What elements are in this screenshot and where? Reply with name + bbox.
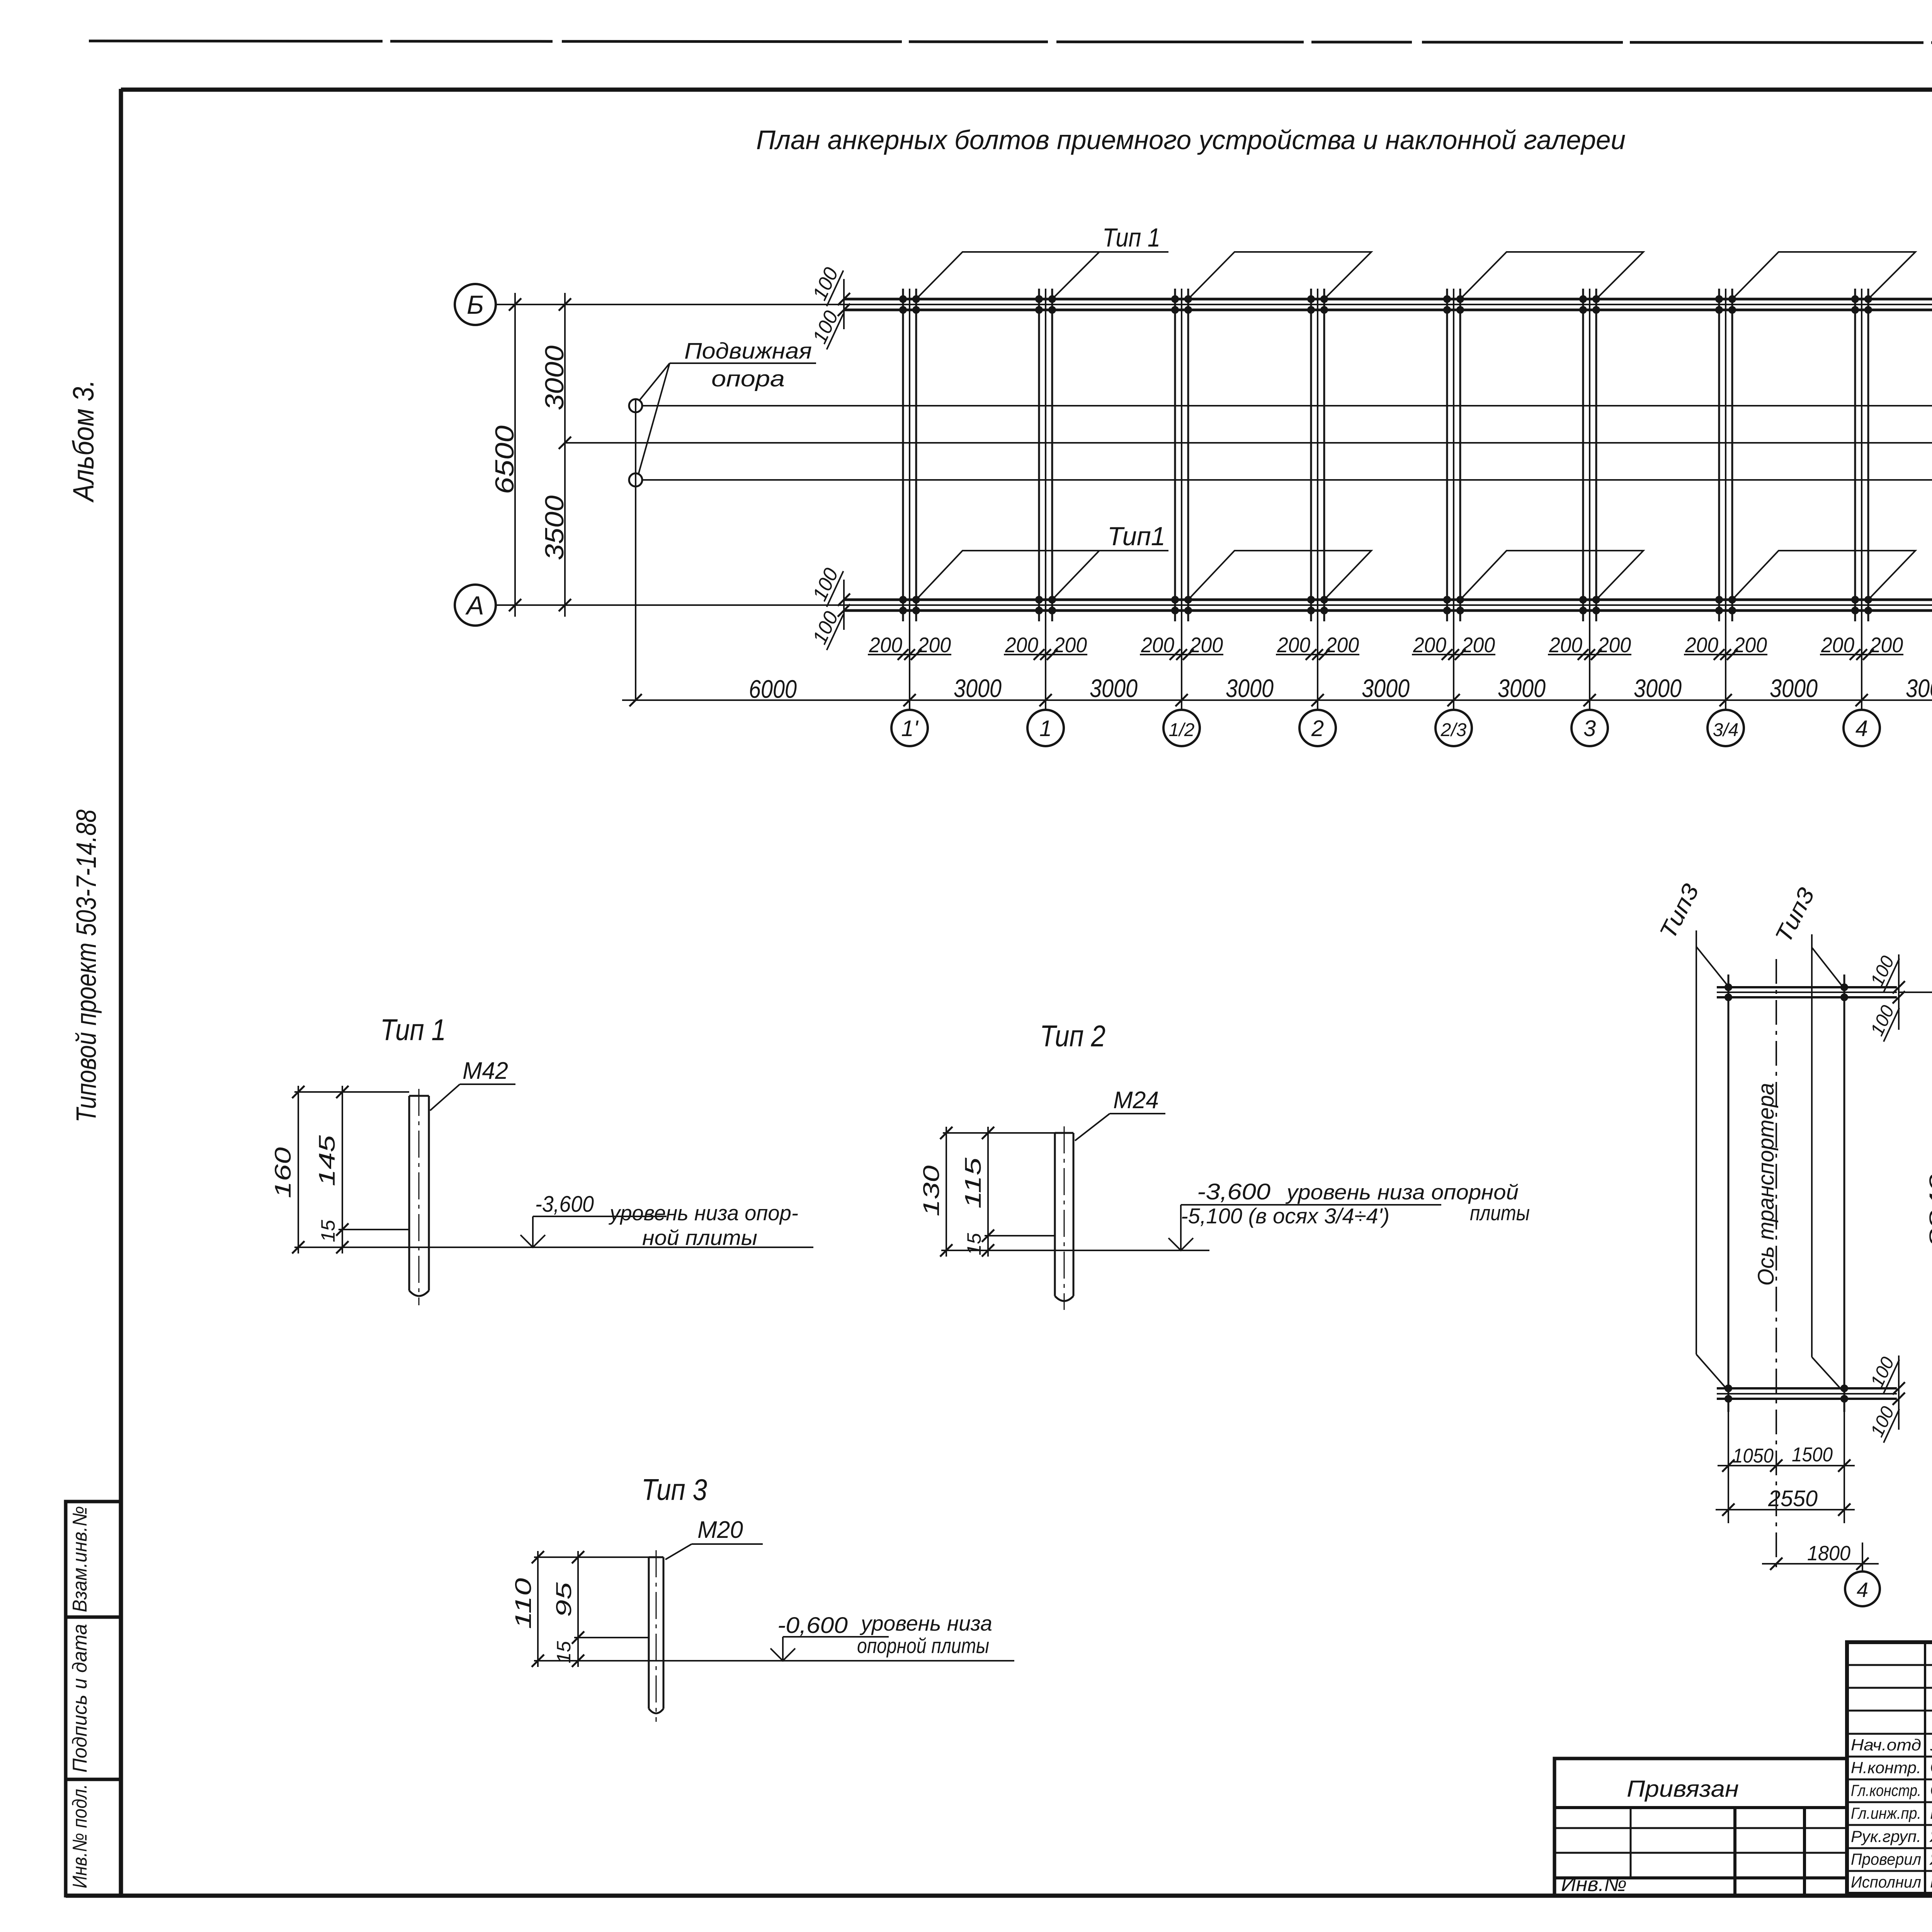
column axis 1/2 bbox=[1171, 289, 1192, 710]
axis bubble 1/2 bbox=[1163, 710, 1200, 746]
movable support left circles bbox=[629, 399, 642, 700]
strip A 100/100 dimension bbox=[807, 562, 850, 650]
title block frame bbox=[1847, 1642, 1932, 1894]
svg-text:200: 200 bbox=[1821, 633, 1854, 657]
svg-text:200: 200 bbox=[1685, 633, 1718, 657]
svg-text:Б: Б bbox=[467, 290, 484, 320]
svg-text:Орлик: Орлик bbox=[1930, 1757, 1932, 1777]
margin box Взам.инв.№ bbox=[66, 1502, 121, 1617]
svg-text:200: 200 bbox=[1733, 633, 1767, 657]
axis bubble 1 bbox=[1027, 710, 1064, 746]
svg-text:уровень низа опорной: уровень низа опорной bbox=[1285, 1180, 1519, 1204]
svg-text:2: 2 bbox=[1311, 716, 1324, 741]
svg-text:200: 200 bbox=[1869, 633, 1903, 657]
svg-text:1/2: 1/2 bbox=[1169, 720, 1195, 740]
svg-text:Павлова: Павлова bbox=[1930, 1871, 1932, 1891]
svg-text:4: 4 bbox=[1855, 716, 1868, 741]
svg-text:200: 200 bbox=[1461, 633, 1495, 657]
tip3 ground line bbox=[534, 1660, 1014, 1662]
tip2 elevation mark bbox=[1168, 1205, 1441, 1250]
dimension 6500 bbox=[490, 293, 521, 617]
svg-text:3000: 3000 bbox=[1906, 674, 1932, 702]
svg-text:3000: 3000 bbox=[1634, 674, 1682, 702]
svg-text:Тип 3: Тип 3 bbox=[641, 1473, 707, 1507]
margin box Подпись и дата bbox=[66, 1617, 121, 1779]
axis bubble 4 (transporter) bbox=[1845, 1571, 1880, 1606]
column axis 2/3 bbox=[1443, 289, 1464, 710]
svg-text:Рук.груп.: Рук.груп. bbox=[1851, 1827, 1921, 1845]
svg-text:-5,100 (в осях 3/4÷4'): -5,100 (в осях 3/4÷4') bbox=[1181, 1204, 1389, 1228]
svg-text:200: 200 bbox=[1597, 633, 1631, 657]
svg-text:Мурашов: Мурашов bbox=[1930, 1803, 1932, 1823]
leader bottom (cols 3/4-4) bbox=[1732, 551, 1915, 600]
axis bubble 2 bbox=[1299, 710, 1336, 746]
tip2 dimension 115/15 bbox=[961, 1127, 1055, 1257]
axis bubble 2/3 bbox=[1435, 710, 1472, 746]
svg-text:Исполнил: Исполнил bbox=[1851, 1873, 1921, 1891]
svg-text:М20: М20 bbox=[697, 1517, 743, 1543]
tip1 anchor bolt M42 bbox=[409, 1089, 429, 1305]
leader bottom (cols 2/3-3) bbox=[1460, 551, 1643, 600]
svg-text:15: 15 bbox=[317, 1220, 339, 1242]
column axis 1' bbox=[899, 289, 920, 710]
support line lower bbox=[642, 479, 1932, 481]
svg-text:Тип 1: Тип 1 bbox=[380, 1013, 446, 1047]
strip B 100/100 dimension bbox=[807, 261, 850, 350]
column 3/4 200/200 dimension bbox=[1684, 633, 1767, 660]
tip3 elevation mark bbox=[770, 1637, 889, 1661]
svg-text:200: 200 bbox=[1005, 633, 1038, 657]
svg-text:160: 160 bbox=[270, 1147, 296, 1198]
transporter 100/100 bottom bbox=[1866, 1351, 1905, 1443]
foundation strip axis A bbox=[844, 600, 1932, 611]
column 1/2 200/200 dimension bbox=[1140, 633, 1223, 660]
svg-text:95: 95 bbox=[551, 1582, 576, 1617]
svg-text:Гл.констр.: Гл.констр. bbox=[1851, 1781, 1921, 1799]
svg-text:опора: опора bbox=[711, 366, 785, 391]
svg-text:3000: 3000 bbox=[540, 345, 569, 410]
svg-text:Подвижная: Подвижная bbox=[684, 338, 812, 364]
svg-text:М42: М42 bbox=[463, 1058, 508, 1084]
svg-text:Ось транспортера: Ось транспортера bbox=[1753, 1083, 1779, 1286]
svg-text:Взам.инв.№: Взам.инв.№ bbox=[69, 1506, 91, 1612]
svg-text:200: 200 bbox=[1189, 633, 1223, 657]
svg-text:уровень низа опор-: уровень низа опор- bbox=[608, 1201, 798, 1225]
svg-text:уровень низа: уровень низа bbox=[859, 1611, 992, 1635]
leader top (cols 1/2-2) bbox=[1188, 252, 1371, 299]
svg-text:-3,600: -3,600 bbox=[1197, 1179, 1270, 1204]
privyazan grid bbox=[1554, 1808, 1847, 1896]
label M20 bbox=[665, 1517, 763, 1560]
axis A line bbox=[496, 604, 844, 606]
svg-text:Нач.отд: Нач.отд bbox=[1851, 1736, 1921, 1754]
column axis 3 bbox=[1579, 289, 1600, 710]
svg-text:200: 200 bbox=[1053, 633, 1087, 657]
column axis 2 bbox=[1307, 289, 1328, 710]
foundation strip axis B bbox=[844, 299, 1932, 310]
title block row lines bbox=[1847, 1665, 1932, 1871]
tip1 level texts bbox=[535, 1192, 798, 1250]
svg-text:-0,600: -0,600 bbox=[777, 1613, 848, 1638]
dimension 1050/1500 bbox=[1718, 1444, 1855, 1472]
svg-text:Проверил: Проверил bbox=[1851, 1850, 1921, 1868]
column axis 4 bbox=[1851, 289, 1872, 710]
svg-text:1: 1 bbox=[1039, 716, 1052, 741]
tip2 level texts bbox=[1181, 1179, 1530, 1228]
title block verticals left section bbox=[1925, 1642, 1932, 1894]
svg-text:130: 130 bbox=[919, 1165, 944, 1216]
svg-text:Н.контр.: Н.контр. bbox=[1851, 1759, 1921, 1777]
column axis 3/4 bbox=[1715, 289, 1736, 710]
column 4 200/200 dimension bbox=[1820, 633, 1903, 660]
svg-text:План анкерных болтов приемного: План анкерных болтов приемного устройств… bbox=[756, 125, 1626, 155]
axis bubble 3 bbox=[1571, 710, 1608, 746]
svg-text:Подпись и дата: Подпись и дата bbox=[69, 1624, 91, 1773]
svg-text:2/3: 2/3 bbox=[1440, 720, 1467, 740]
svg-text:А: А bbox=[465, 591, 484, 620]
svg-text:1800: 1800 bbox=[1807, 1542, 1850, 1565]
tip2 dimension 130 bbox=[919, 1127, 1055, 1257]
dimension 8840 bbox=[1925, 992, 1932, 1400]
svg-text:Инв.№ подл.: Инв.№ подл. bbox=[69, 1784, 91, 1888]
svg-text:ной плиты: ной плиты bbox=[642, 1226, 757, 1250]
axis B circle bbox=[455, 284, 496, 325]
page top dashed rule bbox=[89, 41, 1932, 43]
tip3 dimension 95/15 bbox=[551, 1551, 649, 1667]
svg-text:3000: 3000 bbox=[1770, 674, 1818, 702]
svg-text:Альбом 3.: Альбом 3. bbox=[67, 380, 100, 503]
svg-text:Привязан: Привязан bbox=[1627, 1776, 1739, 1802]
column 1' 200/200 dimension bbox=[868, 633, 951, 660]
tip3 anchor bolt M20 bbox=[649, 1550, 663, 1722]
dimension 3000/3500 vertical bbox=[540, 293, 571, 617]
svg-text:3000: 3000 bbox=[1498, 674, 1546, 702]
svg-text:3500: 3500 bbox=[540, 495, 569, 560]
svg-text:6500: 6500 bbox=[490, 425, 519, 494]
svg-text:М24: М24 bbox=[1113, 1087, 1159, 1114]
svg-text:1050: 1050 bbox=[1733, 1445, 1774, 1467]
leader top (cols 3/4-4) bbox=[1732, 252, 1915, 299]
label M24 bbox=[1075, 1087, 1165, 1141]
leader bottom (cols 1/2-2) bbox=[1188, 551, 1371, 600]
link dimension line to 29160 bbox=[1899, 986, 1932, 998]
svg-text:Уханев: Уханев bbox=[1930, 1734, 1932, 1754]
svg-text:110: 110 bbox=[511, 1578, 536, 1629]
svg-text:6000: 6000 bbox=[749, 675, 797, 703]
axis bubble 4 bbox=[1844, 710, 1880, 746]
svg-text:Орлик: Орлик bbox=[1930, 1780, 1932, 1800]
axis B line bbox=[496, 304, 844, 305]
transporter centerline bbox=[1776, 959, 1777, 1570]
tip3 leader right bbox=[1770, 884, 1843, 1391]
svg-text:1500: 1500 bbox=[1792, 1444, 1833, 1466]
dimension 2550 bbox=[1716, 1486, 1855, 1516]
tip1 dimension 160 bbox=[270, 1086, 409, 1253]
column 2/3 200/200 dimension bbox=[1412, 633, 1495, 660]
svg-text:3/4: 3/4 bbox=[1713, 720, 1739, 740]
tip3 leader left bbox=[1655, 880, 1728, 1389]
svg-text:15: 15 bbox=[963, 1233, 985, 1255]
leader Tip1 bottom (cols 1p-1) bbox=[916, 522, 1168, 600]
transporter top strip bbox=[1717, 987, 1897, 997]
transporter column left bbox=[1725, 975, 1732, 1523]
svg-text:3000: 3000 bbox=[1362, 674, 1410, 702]
leader Tip1 top (cols 1p-1) bbox=[916, 223, 1168, 299]
transporter bottom strip bbox=[1717, 1388, 1897, 1399]
axis A circle bbox=[455, 585, 496, 626]
svg-text:Инв.№: Инв.№ bbox=[1561, 1873, 1627, 1896]
svg-text:4: 4 bbox=[1857, 1578, 1868, 1602]
support line upper bbox=[642, 405, 1932, 406]
tip1 ground line bbox=[294, 1247, 813, 1248]
column axis 1 bbox=[1035, 289, 1056, 710]
svg-text:Типовой проект 503-7-14.88: Типовой проект 503-7-14.88 bbox=[71, 810, 102, 1122]
svg-text:3: 3 bbox=[1583, 716, 1596, 741]
svg-text:3000: 3000 bbox=[1226, 674, 1274, 702]
svg-text:3000: 3000 bbox=[1090, 674, 1138, 702]
axis bubble 1' bbox=[891, 710, 928, 746]
tip1 dimension 145/15 bbox=[315, 1086, 409, 1253]
svg-text:1': 1' bbox=[901, 716, 918, 741]
svg-text:Гл.инж.пр.: Гл.инж.пр. bbox=[1851, 1804, 1921, 1822]
svg-text:2550: 2550 bbox=[1768, 1486, 1818, 1511]
label podvizhnaya opora left bbox=[638, 338, 816, 474]
mid horizontal line (3000/3500 split) bbox=[565, 442, 1932, 444]
transporter column right bbox=[1840, 975, 1848, 1523]
svg-text:200: 200 bbox=[869, 633, 902, 657]
svg-text:3000: 3000 bbox=[954, 674, 1002, 702]
svg-text:200: 200 bbox=[1325, 633, 1359, 657]
svg-text:200: 200 bbox=[1277, 633, 1310, 657]
svg-text:Тип 1: Тип 1 bbox=[1102, 223, 1160, 252]
svg-text:200: 200 bbox=[1141, 633, 1174, 657]
tip3 dimension 110 bbox=[511, 1551, 649, 1667]
leader top (cols 2/3-3) bbox=[1460, 252, 1643, 299]
main bottom dimension line bbox=[622, 674, 1932, 706]
tip3 level texts bbox=[777, 1611, 992, 1658]
svg-text:200: 200 bbox=[917, 633, 951, 657]
transporter 100/100 top bbox=[1866, 950, 1905, 1042]
privyazan table frame bbox=[1554, 1759, 1847, 1896]
axis bubble 3/4 bbox=[1708, 710, 1744, 746]
tip1 elevation mark bbox=[520, 1216, 667, 1247]
svg-text:плиты: плиты bbox=[1470, 1201, 1530, 1225]
svg-text:200: 200 bbox=[1549, 633, 1582, 657]
tip2 anchor bolt M24 bbox=[1055, 1126, 1073, 1310]
tip2 ground line bbox=[941, 1250, 1209, 1251]
svg-text:-3,600: -3,600 bbox=[535, 1192, 594, 1217]
svg-text:Тип1: Тип1 bbox=[1107, 522, 1165, 551]
column 3 200/200 dimension bbox=[1548, 633, 1631, 660]
column 2 200/200 dimension bbox=[1276, 633, 1359, 660]
label M42 bbox=[430, 1058, 515, 1111]
svg-text:145: 145 bbox=[315, 1135, 340, 1186]
svg-text:8840: 8840 bbox=[1925, 1174, 1932, 1247]
svg-text:опорной плиты: опорной плиты bbox=[857, 1634, 989, 1658]
svg-text:Тип 2: Тип 2 bbox=[1040, 1019, 1105, 1053]
svg-text:200: 200 bbox=[1413, 633, 1446, 657]
svg-text:115: 115 bbox=[961, 1157, 986, 1209]
margin box Инв.№ подл. bbox=[66, 1779, 121, 1896]
column 1 200/200 dimension bbox=[1004, 633, 1087, 660]
title block names bbox=[1851, 1734, 1932, 1891]
dimension 1800 bbox=[1762, 1542, 1879, 1571]
